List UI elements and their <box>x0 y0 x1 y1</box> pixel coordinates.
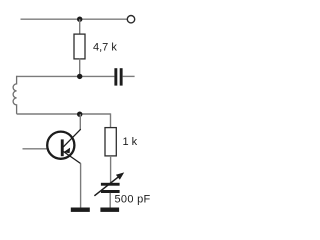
wire C2 to ground <box>109 193 111 208</box>
wire R1 bottom to dot2 <box>79 59 81 77</box>
capacitor C1 right plate <box>120 68 123 85</box>
wire net2 down to R2 <box>110 113 112 127</box>
junction node dot3 <box>77 112 82 117</box>
wire base horizontal <box>23 148 48 150</box>
ground left <box>71 208 90 212</box>
junction node dot2 <box>77 74 82 79</box>
svg-text:500 pF: 500 pF <box>115 193 151 205</box>
terminal output circle <box>127 16 134 23</box>
resistor R2 body <box>105 128 116 156</box>
ground right <box>100 208 119 212</box>
capacitor C1 left plate <box>114 68 117 85</box>
varcap C2 bottom plate <box>101 190 120 193</box>
transistor Q1 collector line <box>63 152 80 164</box>
varcap C2 arrow head <box>116 172 124 179</box>
transistor Q1 emitter line <box>63 129 80 147</box>
transistor Q1 circle <box>47 132 74 159</box>
wire top supply horizontal <box>21 18 128 20</box>
inductor L1 coil <box>13 76 16 114</box>
svg-text:4,7 k: 4,7 k <box>93 42 117 54</box>
wire C1 right stub <box>123 75 135 77</box>
wire emitter vertical <box>79 114 81 130</box>
transistor Q1 emitter arrow <box>64 148 71 154</box>
wire dot1 to R1 top <box>79 19 81 34</box>
junction node dot1 <box>77 17 82 22</box>
transistor Q1 base bar <box>61 139 64 156</box>
resistor R1 body <box>74 34 85 59</box>
wire collector to ground <box>80 163 82 208</box>
wire horizontal net2 <box>17 113 111 115</box>
wire horizontal net1 <box>17 75 115 77</box>
varcap C2 arrow line <box>94 175 120 196</box>
varcap C2 top plate <box>101 183 120 186</box>
svg-text:1 k: 1 k <box>123 136 138 148</box>
wire R2 bottom to C2 <box>110 156 112 183</box>
